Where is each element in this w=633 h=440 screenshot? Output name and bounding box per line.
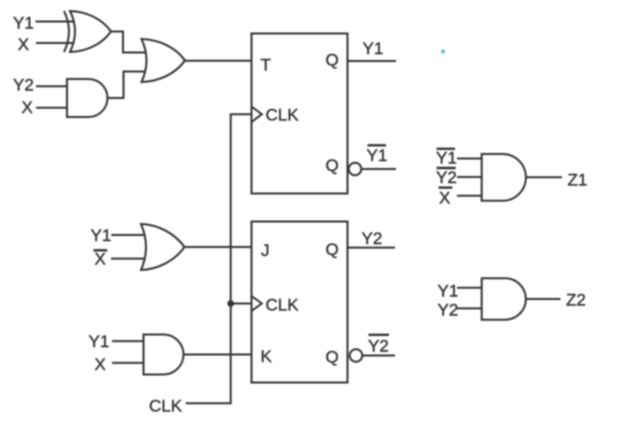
svg-text:K: K bbox=[261, 347, 273, 366]
svg-text:Y1: Y1 bbox=[438, 282, 459, 301]
svg-text:Y1: Y1 bbox=[13, 14, 34, 33]
svg-text:Y1: Y1 bbox=[363, 39, 384, 58]
svg-text:CLK: CLK bbox=[266, 296, 300, 315]
svg-text:Z1: Z1 bbox=[568, 171, 588, 190]
svg-text:Y2: Y2 bbox=[368, 337, 389, 356]
svg-text:X: X bbox=[95, 250, 106, 269]
svg-text:Y1: Y1 bbox=[367, 146, 388, 165]
svg-text:CLK: CLK bbox=[149, 397, 183, 416]
svg-text:Y2: Y2 bbox=[362, 229, 383, 248]
svg-text:CLK: CLK bbox=[266, 106, 300, 125]
svg-text:Q: Q bbox=[326, 348, 339, 367]
svg-text:Y1: Y1 bbox=[91, 226, 112, 245]
svg-text:X: X bbox=[18, 35, 29, 54]
svg-text:Y2: Y2 bbox=[436, 168, 457, 187]
svg-text:Y2: Y2 bbox=[438, 301, 459, 320]
svg-text:Z2: Z2 bbox=[566, 291, 586, 310]
svg-text:Y2: Y2 bbox=[13, 76, 34, 95]
svg-text:X: X bbox=[22, 98, 33, 117]
svg-text:Q: Q bbox=[326, 156, 339, 175]
svg-text:X: X bbox=[95, 355, 106, 374]
svg-text:T: T bbox=[261, 56, 271, 75]
svg-text:Q: Q bbox=[326, 51, 339, 70]
svg-text:Q: Q bbox=[326, 240, 339, 259]
svg-text:Y1: Y1 bbox=[89, 332, 110, 351]
svg-text:X: X bbox=[439, 189, 450, 208]
svg-text:Y1: Y1 bbox=[436, 149, 457, 168]
svg-text:J: J bbox=[261, 241, 270, 260]
